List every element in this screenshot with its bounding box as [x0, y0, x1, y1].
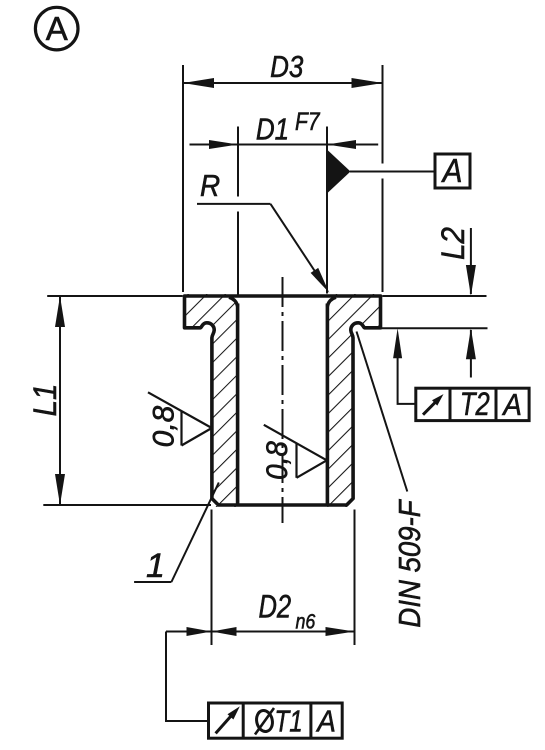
- label R leader arrow: [311, 268, 330, 293]
- hatching right wall: [300, 260, 420, 540]
- svg-text:DIN 509-F: DIN 509-F: [393, 498, 428, 627]
- extension line D3 left: [182, 65, 184, 292]
- view label circle A: [35, 7, 78, 50]
- extension line D2 left: [211, 510, 213, 646]
- svg-text:0,8: 0,8: [261, 441, 294, 480]
- extension line D1 right: [326, 127, 328, 294]
- svg-text:D1: D1: [256, 112, 289, 147]
- svg-text:T1: T1: [275, 704, 303, 739]
- svg-text:A: A: [315, 704, 336, 739]
- svg-text:1: 1: [146, 547, 165, 585]
- centerline: [282, 277, 284, 523]
- svg-text:L2: L2: [435, 227, 471, 260]
- collar underside line right: [381, 327, 488, 329]
- datum triangle: [328, 151, 351, 193]
- tolerance T1 frame: [209, 703, 343, 738]
- svg-text:D2: D2: [258, 590, 291, 625]
- dimension D1 left arrow: [209, 140, 238, 149]
- svg-text:L1: L1: [27, 384, 63, 417]
- bore left wall: [236, 304, 240, 504]
- DIN 509-F leader: [357, 332, 408, 492]
- label 1 leader: [171, 483, 218, 583]
- top surface line right: [382, 295, 486, 297]
- datum frame box: [435, 154, 470, 188]
- dimension L2 top arrow: [466, 265, 476, 296]
- dimension L2 line upper: [470, 228, 472, 294]
- label 1 underline: [134, 581, 171, 583]
- dimension L1 bottom arrow: [55, 474, 65, 505]
- svg-text:n6: n6: [296, 610, 316, 634]
- dimension D2 line: [166, 631, 355, 633]
- svg-text:A: A: [46, 10, 68, 47]
- tolerance T2 runout symbol: [423, 401, 437, 415]
- extension line D1 left (gap at R underline): [237, 127, 239, 303]
- dimension D2 bowtie arrows: [187, 627, 212, 636]
- bore entry radius left: [229, 297, 238, 306]
- dimension D3 line: [183, 82, 383, 84]
- top surface line left: [47, 295, 183, 297]
- extension line D3 right (gap at datum leader): [382, 65, 384, 292]
- label R underline: [197, 203, 271, 205]
- dimension D2 right arrow: [326, 627, 355, 636]
- svg-text:F7: F7: [295, 107, 321, 135]
- extension line D2 right: [354, 510, 356, 646]
- dimension D1 line: [190, 144, 379, 146]
- bottom surface line: [43, 504, 211, 506]
- dimension D3 right arrow: [352, 78, 383, 88]
- hatching left wall: [150, 260, 270, 540]
- tolerance T1 runout symbol: [216, 716, 231, 733]
- dimension D1 right arrow: [327, 140, 356, 149]
- tolerance T1 leader: [166, 632, 209, 722]
- bore right wall: [326, 304, 330, 504]
- svg-text:T2: T2: [460, 387, 490, 422]
- roughness symbol left 0,8: [148, 392, 212, 445]
- tolerance T1 diameter symbol: [255, 709, 275, 733]
- dimension L2 bottom arrow: [466, 328, 476, 359]
- svg-text:R: R: [200, 169, 220, 204]
- tolerance T2 leader arrow: [393, 328, 402, 358]
- tolerance T2 frame: [416, 388, 529, 420]
- dimension D3 left arrow: [183, 78, 214, 88]
- dimension L1 top arrow: [55, 296, 65, 327]
- bushing body outline: [185, 296, 381, 505]
- svg-text:A: A: [441, 153, 463, 190]
- tolerance T2 leader: [398, 352, 416, 404]
- svg-text:A: A: [501, 388, 522, 423]
- roughness symbol bore 0,8: [264, 425, 327, 478]
- svg-text:D3: D3: [270, 50, 303, 85]
- dimension L2 line lower: [470, 330, 472, 378]
- svg-text:0,8: 0,8: [148, 405, 181, 447]
- label R leader: [271, 204, 325, 285]
- dimension L1 line: [59, 296, 61, 505]
- bore entry radius right: [327, 297, 336, 306]
- datum leader: [350, 171, 435, 173]
